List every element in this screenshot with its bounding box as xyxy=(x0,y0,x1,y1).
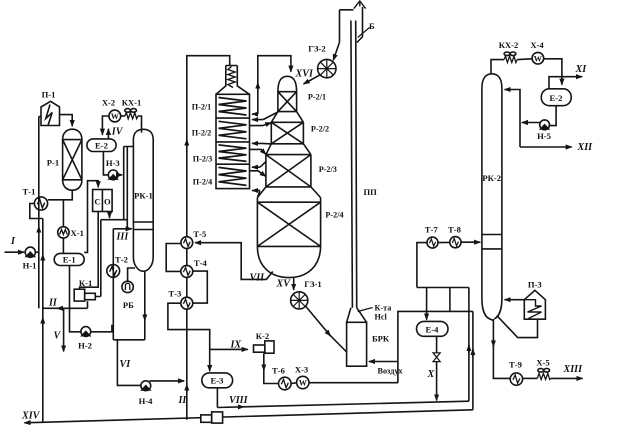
arrow up riser at 144 xyxy=(186,140,188,148)
svg-text:VI: VI xyxy=(120,359,132,370)
svg-text:Нсl: Нсl xyxy=(375,313,388,322)
wire N-1 discharge xyxy=(35,251,38,253)
T-8 coil xyxy=(452,239,458,246)
R-2 transition1 xyxy=(271,112,303,123)
svg-text:Е-3: Е-3 xyxy=(211,376,224,386)
T-6 coil xyxy=(281,379,288,387)
R-2 bottom dome xyxy=(257,246,320,277)
wire GZ-2 to R-2 dome xyxy=(304,75,320,84)
wire T-3 left to E-3 feed xyxy=(168,303,210,371)
RB inner stem xyxy=(125,283,129,290)
pump N-3 base xyxy=(109,175,117,179)
wire X-1 to E-1 xyxy=(62,238,64,253)
wire KX-2 to X-4 xyxy=(517,58,532,61)
svg-text:Е-1: Е-1 xyxy=(63,255,76,265)
wire K-1 right to riser xyxy=(95,220,101,297)
vessel E-2 left xyxy=(87,139,116,152)
pump N-5 xyxy=(540,120,550,130)
svg-text:Т-5: Т-5 xyxy=(193,229,206,239)
svg-text:П-1: П-1 xyxy=(42,90,56,100)
svg-text:Т-8: Т-8 xyxy=(448,224,462,234)
wire K-2 down to T-6 xyxy=(264,353,279,383)
svg-text:П-2/2: П-2/2 xyxy=(192,129,212,138)
arrow down on RK-1 bottoms xyxy=(144,313,146,321)
wire N-3 discharge arrow xyxy=(118,174,122,176)
wire ladder stage3 mid to P-2/4 xyxy=(252,162,266,168)
svg-text:Р-2/4: Р-2/4 xyxy=(325,211,343,220)
svg-text:Х-3: Х-3 xyxy=(295,364,308,374)
wire X-4 to E-2 right with arrow xyxy=(544,59,562,85)
R-2 stage1 X xyxy=(278,92,297,112)
wire reflux riser into RK-2 xyxy=(505,90,521,148)
arrow up riser at 388 xyxy=(186,385,188,393)
svg-text:Р-2/2: Р-2/2 xyxy=(311,125,329,134)
KX-2 zigzag xyxy=(504,56,517,62)
wire RB stem to column xyxy=(128,268,135,281)
svg-text:IX: IX xyxy=(230,340,242,351)
svg-text:К-2: К-2 xyxy=(256,331,269,341)
wire XIV return line xyxy=(24,410,473,423)
wire E-1 bottoms down to N-2 suction xyxy=(70,266,81,332)
wire main left riser to P-1 xyxy=(38,117,40,309)
air condenser KX-1 fan ellipses xyxy=(125,109,131,113)
T-3 coil xyxy=(183,299,190,307)
svg-text:Н-3: Н-3 xyxy=(106,158,120,168)
pump N-4 base xyxy=(142,386,150,390)
wire T-1 bypass loop xyxy=(30,204,43,219)
heat exchanger T-2 xyxy=(107,265,120,278)
wire T-6 to X-3 xyxy=(291,382,297,385)
P-2/3 coil xyxy=(219,145,247,162)
arrow up on left riser xyxy=(38,227,40,235)
heat exchanger T-1 xyxy=(34,197,47,210)
wire feed header 287 xyxy=(417,287,469,289)
reactor R-1 trays and X packing xyxy=(63,140,82,180)
svg-text:XI: XI xyxy=(575,64,588,75)
svg-text:Е-2: Е-2 xyxy=(550,93,563,103)
svg-text:Х-5: Х-5 xyxy=(536,358,549,368)
svg-text:Е-2: Е-2 xyxy=(95,140,108,150)
wire ladder P-2/3 to stage3 top xyxy=(250,149,267,154)
wire feed riser right with arrow up xyxy=(468,288,470,402)
cooler X-1 xyxy=(58,227,69,238)
svg-text:X: X xyxy=(427,369,435,380)
wire E-4 feed drop xyxy=(449,288,451,312)
compressor K-1 box small xyxy=(85,293,96,299)
valve on E-4 bottoms xyxy=(433,353,440,362)
wire second left line T-1 loop down to XIV xyxy=(42,219,44,423)
wire T-7 feed vertical xyxy=(417,243,427,288)
wire P-1 to R-1 with arrow xyxy=(60,115,73,127)
vessel BRK neck xyxy=(347,308,367,323)
wire RK-2 bottoms to P-3 xyxy=(497,316,538,338)
regulator RB xyxy=(122,281,133,292)
svg-text:П-2/3: П-2/3 xyxy=(193,155,213,164)
wire VI drop xyxy=(117,340,140,386)
pump N-3 xyxy=(108,170,118,180)
svg-text:IV: IV xyxy=(111,127,124,138)
wire X-2 to KX-1 xyxy=(121,115,125,117)
wire K-1 bottom drop xyxy=(87,301,89,308)
wire N-5 discharge to reflux line xyxy=(522,122,540,124)
wire bypass T-5 left to T-4 xyxy=(166,244,181,272)
wire N-2 discharge to T-2 line xyxy=(91,326,114,332)
wire N-4 discharge into riser xyxy=(149,380,184,382)
wire bypass T-4 right to T-3 xyxy=(193,271,208,303)
wire ladder stage2 bottom to P-2/3 xyxy=(252,142,271,145)
R-2 stage3 X xyxy=(266,155,311,187)
wire air Vozdukh into BRK xyxy=(369,361,398,363)
P-2 neck coil xyxy=(228,67,235,88)
wire RK-2 overhead to KX-2 xyxy=(491,60,504,74)
wire IX branch to K-2 xyxy=(210,348,248,350)
svg-text:О: О xyxy=(104,197,111,207)
svg-text:Н-4: Н-4 xyxy=(139,396,154,406)
svg-text:II: II xyxy=(178,395,188,406)
GZ-1 spokes xyxy=(291,292,308,309)
svg-text:W: W xyxy=(111,112,120,121)
P-3 coil zigzag xyxy=(524,300,541,319)
C/O divider xyxy=(101,190,103,212)
P-2/2 coil xyxy=(219,121,247,139)
svg-text:Х-1: Х-1 xyxy=(71,228,84,238)
cooler X-2 xyxy=(109,110,121,122)
pump N-1 base xyxy=(26,252,34,256)
svg-text:БРК: БРК xyxy=(372,334,390,344)
RK-2 trays xyxy=(482,235,502,249)
wire bottoms header to VI xyxy=(113,339,145,341)
svg-text:Т-2: Т-2 xyxy=(115,254,128,264)
svg-text:XVI: XVI xyxy=(295,69,314,80)
wire III into RK-1 xyxy=(113,228,132,230)
svg-text:XIII: XIII xyxy=(563,364,584,375)
wire E-2 bottoms to N-5 xyxy=(549,106,556,126)
svg-text:П-2/4: П-2/4 xyxy=(193,178,213,187)
svg-text:Т-6: Т-6 xyxy=(272,365,286,375)
wire R-1 bottoms to T-1 xyxy=(48,190,72,200)
P-2/4 coil xyxy=(219,167,247,185)
svg-text:ПП: ПП xyxy=(364,187,378,197)
wire stream I feed arrow into N-1 xyxy=(5,251,25,253)
wire reflux pipe pair along RK-1 xyxy=(124,147,134,229)
svg-text:ГЗ-1: ГЗ-1 xyxy=(304,279,321,289)
R-2 stage2 X xyxy=(271,122,303,144)
wire VII reactor bottom to T-5 xyxy=(195,243,273,280)
svg-text:Т-9: Т-9 xyxy=(509,359,522,369)
svg-text:Р-2/3: Р-2/3 xyxy=(319,165,337,174)
wire stream IV arrow up xyxy=(107,129,109,139)
R-2 transition3 xyxy=(257,187,320,198)
column RK-1 shell xyxy=(133,129,153,271)
wire ladder into P-2 at 114 xyxy=(252,113,258,115)
pump N-2 base xyxy=(82,332,90,336)
heat exchanger T-4 xyxy=(181,265,193,277)
vessel E-3 xyxy=(202,373,233,388)
T-1 coil s-curve xyxy=(37,199,44,208)
svg-text:II: II xyxy=(48,298,58,309)
wire C/O bottom-left to K-1 xyxy=(80,212,99,290)
wire into E-4 top xyxy=(426,288,428,320)
flare stack pipe xyxy=(351,21,357,308)
R-2 transition2 xyxy=(266,144,311,155)
pump N-4 xyxy=(141,381,151,391)
svg-text:Р-1: Р-1 xyxy=(47,158,59,168)
wire main riser II to furnace P-2 xyxy=(187,56,230,420)
KX-1 zigzag xyxy=(125,113,138,119)
wire X stream down arrow xyxy=(436,361,438,400)
reactor R-2 stage1 dome and shell xyxy=(278,76,297,111)
arrow up on second line at 320 xyxy=(42,318,44,326)
T-9 coil xyxy=(513,375,520,383)
svg-text:К-та: К-та xyxy=(375,304,392,313)
svg-text:Х-4: Х-4 xyxy=(530,40,544,50)
X-1 zigzag xyxy=(60,230,68,235)
RK-1 trays xyxy=(133,222,153,230)
T-7 coil xyxy=(429,239,435,246)
wire X-2 left down into E-2 xyxy=(102,116,109,135)
wire branch to X-1 xyxy=(62,200,64,227)
svg-text:Т-7: Т-7 xyxy=(425,224,439,234)
T-5 coil xyxy=(184,239,191,247)
pump N-2 xyxy=(81,327,91,337)
vessel E-4 xyxy=(417,321,449,336)
wire RK-1 bottoms down xyxy=(144,271,146,340)
heat exchanger T-5 xyxy=(181,237,193,249)
svg-text:ГЗ-2: ГЗ-2 xyxy=(308,44,325,54)
vessel E-1 xyxy=(54,253,84,265)
wire E-2 bottoms to N-3 xyxy=(103,152,108,175)
svg-text:III: III xyxy=(116,232,130,243)
wire V drop arrow xyxy=(63,308,65,351)
svg-text:К-1: К-1 xyxy=(79,278,92,288)
wire RK-2 bottoms down to T-9 xyxy=(493,319,510,378)
heat exchanger T-3 xyxy=(181,297,193,309)
wire X-3 to air line xyxy=(309,382,398,384)
svg-text:VIII: VIII xyxy=(229,395,249,406)
svg-text:КХ-2: КХ-2 xyxy=(499,40,519,50)
svg-text:Воздух: Воздух xyxy=(378,367,404,376)
P-2/1 coil xyxy=(219,98,247,116)
svg-text:П-3: П-3 xyxy=(528,279,542,289)
svg-text:XII: XII xyxy=(577,142,594,153)
svg-text:Т-1: Т-1 xyxy=(23,187,36,197)
heat exchanger T-9 xyxy=(510,373,522,385)
R-2 stage2 shell xyxy=(271,122,303,144)
wire T-9 to X-5 xyxy=(523,377,538,379)
wire GZ-1 to BRK diagonal xyxy=(306,307,331,337)
blower GZ-1 xyxy=(291,292,308,309)
svg-text:РК-2: РК-2 xyxy=(482,173,501,183)
pump N-5 base xyxy=(541,125,549,129)
furnace P-2 box xyxy=(216,94,250,188)
adsorber C/O box xyxy=(93,190,113,212)
arrow down on RK-2 bottoms xyxy=(492,339,494,347)
svg-text:W: W xyxy=(299,379,308,388)
X-5 zigzag xyxy=(537,373,551,379)
svg-text:РК-1: РК-1 xyxy=(134,191,153,201)
wire ladder P-2/4 out xyxy=(250,171,267,177)
compressor K-2 box small xyxy=(254,345,265,352)
wire E-4 bottom to valve xyxy=(436,336,438,352)
blower GZ-2 xyxy=(318,59,336,77)
R-2 stage4 shell xyxy=(257,198,320,247)
compressor K-1 box big xyxy=(74,289,85,301)
svg-text:С: С xyxy=(94,197,100,207)
wire XII product arrow xyxy=(520,146,572,148)
heat exchanger T-7 xyxy=(427,237,438,248)
svg-text:Р-2/1: Р-2/1 xyxy=(308,93,326,102)
wire XI branch arrow xyxy=(549,77,582,89)
svg-text:Б: Б xyxy=(369,21,375,31)
furnace P-1 xyxy=(41,101,60,125)
flare stack mouth xyxy=(340,7,363,43)
svg-text:П-2/1: П-2/1 xyxy=(192,103,212,112)
wire XIV riser right xyxy=(472,311,474,409)
wire feed riser to C/O xyxy=(84,181,98,253)
pump N-1 xyxy=(25,247,35,257)
wire T-7 to T-8 to RK-2 xyxy=(438,241,480,243)
vessel E-2 right xyxy=(541,89,571,106)
svg-text:Н-2: Н-2 xyxy=(78,341,92,351)
slide valve flange on XIV line xyxy=(201,415,212,422)
svg-text:Т-3: Т-3 xyxy=(168,289,181,299)
wire stack to GZ-2 xyxy=(333,42,339,60)
wire P-2 transfer riser to R-2 top xyxy=(258,56,291,114)
heat exchanger T-6 xyxy=(279,377,292,390)
wire ladder P-2/4 to stage4 top xyxy=(257,191,260,198)
wire ladder P-2/2 to stage2 top xyxy=(250,123,272,126)
arrow up on second line at 257 xyxy=(42,255,44,263)
reactor R-1 vessel xyxy=(63,129,82,190)
svg-text:РБ: РБ xyxy=(123,300,134,310)
svg-text:VII: VII xyxy=(250,273,266,284)
svg-text:КХ-1: КХ-1 xyxy=(122,98,142,108)
heat exchanger T-8 xyxy=(450,237,461,248)
svg-text:XIV: XIV xyxy=(21,411,41,422)
cooler X-4 xyxy=(532,52,544,64)
svg-text:Н-5: Н-5 xyxy=(537,131,551,141)
svg-text:W: W xyxy=(534,54,543,63)
wire ladder stage1 bottom to P-2/2 xyxy=(252,112,278,120)
arrow up on transfer riser xyxy=(257,83,259,91)
wire T-2 line vertical xyxy=(112,229,114,340)
arrow down on K-2 line xyxy=(263,363,265,371)
wire II header xyxy=(57,307,88,309)
T-2 coil s-curve xyxy=(110,267,117,275)
air condenser KX-2 fan ellipses xyxy=(504,52,510,56)
wire K-ta HCl leader xyxy=(358,308,373,312)
wire XIII product arrow xyxy=(551,377,583,379)
flare stack arrow chevron xyxy=(354,1,366,9)
furnace P-3 xyxy=(524,290,545,319)
compressor K-2 box big xyxy=(265,341,274,353)
vessel BRK body xyxy=(347,322,367,366)
svg-text:XV: XV xyxy=(276,279,292,290)
wire ladder stage3 bottom to P-2/4 low xyxy=(252,190,260,192)
T-4 coil xyxy=(183,267,190,275)
svg-text:Е-4: Е-4 xyxy=(426,324,440,334)
cooler X-3 xyxy=(297,376,309,388)
R-2 stage4 X xyxy=(257,202,320,246)
wire KX-1 to RK-1 dome xyxy=(138,116,142,133)
air cooler X-5 fan ellipses xyxy=(538,369,544,373)
GZ-2 spokes xyxy=(318,59,336,77)
wire air riser xyxy=(398,311,473,382)
P-2 section divider lines xyxy=(216,118,250,164)
wire E-3 bottoms VIII line xyxy=(217,388,244,408)
wire header under C/O xyxy=(101,219,128,221)
svg-text:Х-2: Х-2 xyxy=(102,98,115,108)
svg-text:Н-1: Н-1 xyxy=(23,260,37,270)
furnace P-1 coil zigzag xyxy=(46,105,52,126)
R-2 stage3 shell xyxy=(266,155,311,187)
wire feed into P-1 left xyxy=(39,116,41,118)
wire B label leader xyxy=(358,28,370,38)
P-2 neck xyxy=(216,66,250,95)
wire P-3 to RK-2 return xyxy=(505,299,525,301)
column RK-2 shell xyxy=(482,74,502,321)
svg-text:Т-4: Т-4 xyxy=(194,258,208,268)
wire C/O bottom-right drop xyxy=(109,212,111,219)
wire R-2 outlet to GZ-1 xyxy=(293,278,295,290)
